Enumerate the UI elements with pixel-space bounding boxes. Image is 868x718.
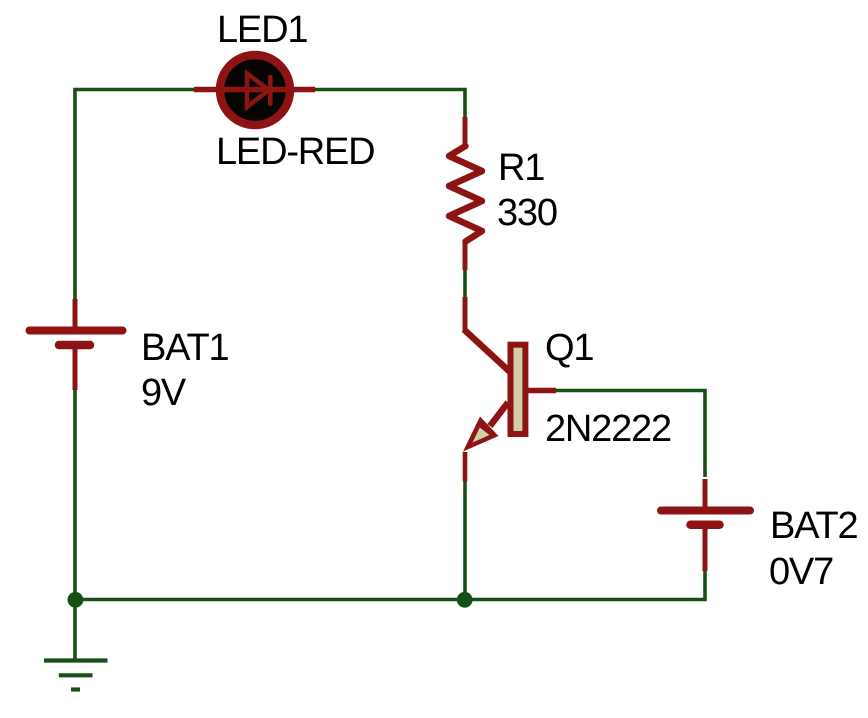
LED body circle (220, 55, 290, 125)
R1 bottom pin (463, 242, 468, 270)
transistor Q1 NPN 2N2222 (463, 297, 556, 482)
node: junction of Q1 emitter with ground rail (457, 592, 473, 608)
Q1 collector diagonal (464, 330, 510, 373)
BAT2 positive pin (703, 479, 708, 507)
ground bar short (71, 687, 80, 691)
ground stem (73, 600, 77, 660)
svg-text:2N2222: 2N2222 (545, 408, 671, 450)
svg-text:0V7: 0V7 (769, 551, 833, 593)
battery BAT2 (661, 479, 750, 571)
Q1 collector pin (463, 297, 468, 331)
svg-text:330: 330 (497, 192, 557, 234)
BAT1 negative plate (59, 341, 90, 350)
LED diode triangle (247, 74, 269, 108)
LED cathode bar (268, 77, 273, 104)
svg-text:Q1: Q1 (545, 327, 593, 369)
node: junction of BAT1 negative with ground rail (68, 592, 84, 608)
BAT2 negative pin (703, 528, 708, 571)
BAT1 positive plate (30, 327, 123, 335)
svg-text:9V: 9V (141, 372, 187, 414)
svg-text:BAT2: BAT2 (770, 505, 857, 547)
BAT1 negative pin (73, 349, 78, 390)
Q1 emitter arrow fill (473, 428, 490, 443)
Q1 base pin (528, 388, 556, 394)
svg-text:R1: R1 (498, 147, 544, 189)
BAT2 negative plate (691, 521, 720, 530)
Q1 emitter diagonal (490, 403, 508, 427)
ground symbol (44, 600, 108, 690)
wire: bottom ground rail (73, 598, 707, 602)
wire: Q1 emitter down to ground rail (463, 481, 467, 601)
BAT1 positive pin (73, 299, 78, 327)
svg-text:LED1: LED1 (217, 9, 307, 51)
LED D-type LED1 (194, 55, 315, 125)
Q1 base bar (511, 345, 526, 434)
wire: BAT2 negative down to ground rail corner (703, 571, 707, 600)
Q1 emitter arrow outline (463, 417, 499, 452)
ground bar long (44, 658, 108, 662)
R1 zigzag body (449, 146, 482, 242)
R1 top pin (463, 117, 468, 147)
wire: BAT1 negative down to ground rail (73, 389, 77, 601)
resistor R1 (449, 117, 482, 270)
wire: LED1 cathode right to corner and down to R1 top (313, 90, 465, 118)
Q1 emitter pin (463, 452, 468, 482)
wire: V+ rail from LED1 anode left to corner and down to BAT1 positive (75, 90, 196, 300)
svg-text:LED-RED: LED-RED (216, 131, 374, 173)
battery BAT1 (30, 299, 123, 390)
ground bar middle (59, 673, 93, 677)
BAT2 positive plate (661, 507, 750, 515)
LED lead through body (anode-cathode pins) (194, 87, 315, 93)
wire: Q1 base right and down to BAT2 positive (556, 391, 705, 478)
svg-text:BAT1: BAT1 (141, 327, 228, 369)
wire: R1 bottom to Q1 collector (463, 269, 467, 299)
